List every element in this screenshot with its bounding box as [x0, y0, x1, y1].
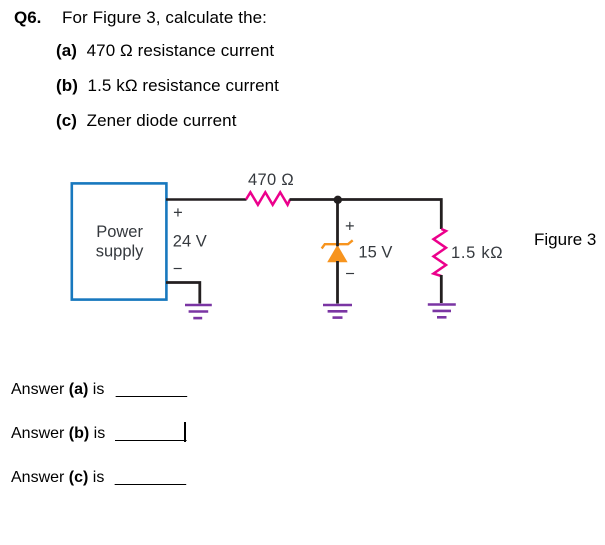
ground left	[185, 305, 212, 318]
item (a)	[56, 42, 274, 59]
ground right	[428, 305, 456, 318]
node junction dot	[334, 196, 342, 204]
text cursor	[184, 422, 186, 442]
svg-text:1.5 kΩ: 1.5 kΩ	[451, 244, 503, 262]
answer line (a)	[11, 382, 187, 398]
svg-text:−: −	[345, 265, 355, 283]
wire top from supply to resistor R1	[166, 198, 247, 201]
svg-text:supply: supply	[96, 242, 144, 260]
resistor R2 1.5 kohm	[434, 229, 504, 276]
wire supply bottom to ground	[166, 283, 200, 304]
svg-text:15 V: 15 V	[358, 244, 392, 262]
svg-text:+: +	[345, 217, 355, 235]
wire R2 to ground	[440, 275, 443, 303]
answer line (c)	[11, 470, 186, 486]
svg-text:470 Ω: 470 Ω	[248, 171, 294, 189]
resistor R1 470 ohm	[246, 171, 294, 205]
wire from R1 to top-right corner down to R2	[290, 200, 442, 230]
answer line (b)	[11, 426, 186, 442]
svg-text:−: −	[173, 260, 183, 278]
ground middle	[323, 305, 352, 318]
svg-text:24 V: 24 V	[173, 233, 207, 251]
figure caption	[534, 231, 596, 248]
power supply box	[72, 183, 167, 299]
svg-text:Power: Power	[96, 223, 143, 241]
question heading Q6	[14, 9, 41, 26]
svg-text:+: +	[173, 204, 183, 222]
wire zener to ground	[336, 261, 339, 304]
item (b)	[56, 77, 279, 94]
wire junction down to zener	[336, 200, 339, 247]
item (c)	[56, 112, 237, 129]
zener diode D1 cathode bar	[322, 240, 353, 262]
